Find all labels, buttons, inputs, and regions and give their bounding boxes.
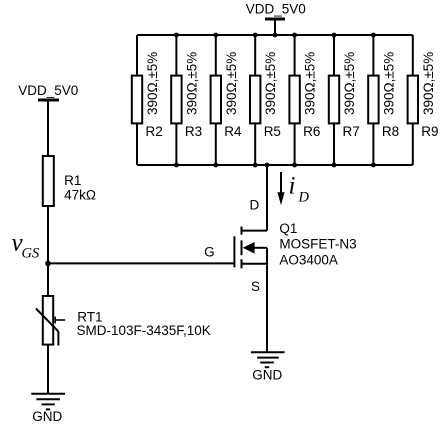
- resistor R2: [132, 35, 142, 165]
- svg-text:R5: R5: [264, 124, 281, 139]
- ground middle: [251, 352, 285, 367]
- svg-text:Q1: Q1: [279, 221, 297, 236]
- svg-text:D: D: [250, 198, 260, 213]
- svg-text:390Ω,±5%: 390Ω,±5%: [421, 52, 436, 115]
- power VDD_5V0 top bar: [265, 19, 285, 35]
- wire top rail: [137, 34, 413, 36]
- resistor R8: [368, 35, 378, 165]
- junction dots bottom rail: [174, 163, 376, 168]
- svg-text:GND: GND: [252, 368, 282, 383]
- svg-text:R4: R4: [224, 124, 242, 139]
- resistor R4: [211, 35, 221, 165]
- svg-text:R7: R7: [343, 124, 360, 139]
- svg-text:AO3400A: AO3400A: [279, 252, 338, 267]
- svg-text:390Ω,±5%: 390Ω,±5%: [263, 52, 278, 115]
- node vGS dot: [45, 261, 51, 267]
- svg-text:R9: R9: [421, 124, 438, 139]
- svg-text:390Ω,±5%: 390Ω,±5%: [145, 52, 160, 115]
- svg-text:G: G: [204, 244, 215, 259]
- svg-text:390Ω,±5%: 390Ω,±5%: [184, 52, 199, 115]
- wire gate: [48, 262, 234, 264]
- svg-text:R6: R6: [303, 124, 320, 139]
- current label iD: [289, 173, 310, 206]
- svg-text:SMD-103F-3435F,10K: SMD-103F-3435F,10K: [77, 323, 211, 338]
- svg-text:390Ω,±5%: 390Ω,±5%: [381, 52, 396, 115]
- resistor R7: [329, 35, 339, 165]
- svg-text:R1: R1: [64, 173, 81, 188]
- resistor R5: [250, 35, 260, 165]
- resistor R6: [289, 35, 299, 165]
- wire source: [266, 248, 268, 352]
- svg-text:GND: GND: [32, 409, 62, 424]
- resistor R1: [43, 156, 54, 206]
- current arrow iD: [277, 172, 284, 205]
- svg-text:R8: R8: [382, 124, 399, 139]
- wire RT1 to ground: [47, 345, 49, 394]
- resistor R9: [408, 35, 418, 165]
- power VDD_5V0 left bar: [38, 100, 59, 156]
- svg-text:390Ω,±5%: 390Ω,±5%: [224, 52, 239, 115]
- svg-text:S: S: [251, 279, 260, 294]
- net label vGS: [12, 230, 40, 262]
- svg-text:MOSFET-N3: MOSFET-N3: [279, 236, 356, 251]
- resistor R3: [171, 35, 181, 165]
- svg-text:390Ω,±5%: 390Ω,±5%: [303, 52, 318, 115]
- svg-text:D: D: [298, 189, 310, 205]
- svg-text:VDD_5V0: VDD_5V0: [18, 83, 78, 98]
- thermistor RT1: [36, 296, 65, 346]
- junction dots top rail: [174, 33, 376, 38]
- wire bottom rail: [137, 164, 413, 166]
- svg-text:i: i: [289, 173, 296, 200]
- svg-text:GS: GS: [22, 246, 40, 262]
- ground left: [31, 394, 65, 410]
- wire R1 to node vGS: [47, 206, 49, 296]
- wire drain: [266, 165, 268, 231]
- svg-text:R3: R3: [185, 124, 202, 139]
- svg-text:390Ω,±5%: 390Ω,±5%: [342, 52, 357, 115]
- transistor Q1: [234, 227, 267, 269]
- svg-text:R2: R2: [146, 124, 163, 139]
- svg-text:47kΩ: 47kΩ: [64, 187, 96, 202]
- svg-text:VDD_5V0: VDD_5V0: [246, 1, 306, 16]
